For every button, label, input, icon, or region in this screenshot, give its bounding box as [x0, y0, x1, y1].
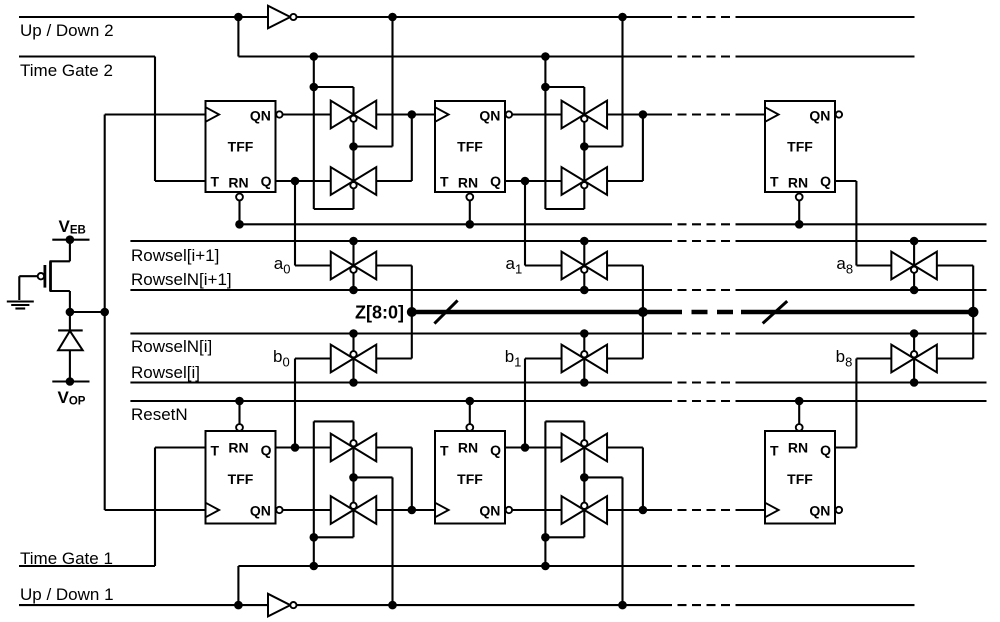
- svg-text:Rowsel[i]: Rowsel[i]: [131, 363, 200, 382]
- flip-flop U11 TFF (bottom bit 1): [435, 431, 505, 524]
- junction control mid: [349, 142, 358, 151]
- svg-text:RN: RN: [458, 440, 478, 456]
- junction: [388, 13, 397, 22]
- wire Rowsel control verticals b8: [913, 334, 915, 383]
- wire Rowsel control verticals a0: [352, 241, 354, 290]
- junction ResetN row: [795, 397, 804, 406]
- QN output bubble: [276, 111, 282, 117]
- junction Z bus end: [968, 307, 979, 318]
- wire Rowsel[i+1] row: [130, 240, 663, 242]
- junction: [618, 601, 627, 610]
- svg-text:T: T: [440, 443, 449, 459]
- junction RowselN[i]: [580, 329, 589, 338]
- QN output bubble: [506, 507, 512, 513]
- wire a1 output to Z: [607, 264, 643, 266]
- wire Q to down-gate: [525, 180, 562, 182]
- junction: [310, 562, 319, 571]
- svg-text:T: T: [770, 443, 779, 459]
- junction: [310, 52, 319, 61]
- junction RN row: [466, 220, 475, 229]
- QN output bubble: [506, 111, 512, 117]
- junction clock row bottom: [408, 506, 417, 515]
- flip-flop U1 TFF (top bit 0): [206, 101, 276, 192]
- junction clock row bottom: [639, 506, 648, 515]
- svg-text:Q: Q: [820, 173, 831, 189]
- junction Rowsel[i]: [910, 378, 919, 387]
- wire Rowsel control verticals b0: [352, 334, 354, 383]
- ground: [7, 300, 34, 302]
- inverter (Up/Down 2 top): [268, 6, 290, 29]
- wire Time Gate 1 vertical: [154, 448, 156, 567]
- junction RowselN[i+1]: [349, 286, 358, 295]
- junction Q top: [291, 177, 300, 186]
- wire control branch bottom: [545, 536, 584, 538]
- wire clock row dashed: [663, 113, 744, 115]
- svg-text:Q: Q: [490, 442, 501, 458]
- diode D1 SPAD: [58, 329, 83, 331]
- svg-text:Time Gate 1: Time Gate 1: [20, 549, 113, 568]
- svg-text:TFF: TFF: [787, 471, 813, 487]
- wire up-gate loop down bottom: [376, 446, 412, 448]
- svg-text:Z[8:0]: Z[8:0]: [355, 303, 404, 323]
- QN output bubble: [276, 507, 282, 513]
- svg-text:Q: Q: [261, 442, 272, 458]
- junction control: [541, 83, 550, 92]
- flip-flop U18 TFF (bottom bit 8): [765, 431, 835, 524]
- wire Rowsel control verticals b1: [583, 334, 585, 383]
- svg-text:QN: QN: [479, 503, 500, 519]
- transmission gate a8: [891, 252, 914, 280]
- wire RN stem: [798, 192, 800, 224]
- flip-flop U9 TFF (top bit 8): [765, 101, 835, 192]
- junction RN row: [795, 220, 804, 229]
- wire QN to down-gate bottom: [512, 509, 561, 511]
- wire Q to up-gate bottom: [295, 446, 331, 448]
- wire control true vertical: [313, 57, 315, 210]
- svg-text:QN: QN: [479, 108, 500, 124]
- svg-text:Up / Down 2: Up / Down 2: [20, 21, 114, 40]
- svg-text:Q: Q: [820, 442, 831, 458]
- transmission gate a0: [331, 252, 354, 280]
- junction control bottom: [310, 533, 319, 542]
- wire down-gate to next clock bottom: [376, 509, 412, 511]
- inverter (Up/Down 1 bottom): [268, 594, 290, 617]
- svg-text:ResetN: ResetN: [131, 405, 188, 424]
- transmission gate clock-path down (top): [562, 167, 585, 195]
- wire diode cathode: [69, 312, 71, 330]
- bus Z[8:0]: [412, 310, 666, 315]
- wire Q to up-gate bottom: [525, 446, 562, 448]
- transmission gate clock-path up (bottom): [562, 434, 585, 462]
- wire control true vertical bottom: [544, 421, 546, 566]
- RN input bubble: [236, 424, 243, 431]
- junction control mid bottom: [349, 473, 358, 482]
- wire Q to b-gate: [835, 446, 856, 448]
- wire control inverted vertical: [621, 17, 623, 147]
- wire down-gate loop up: [376, 180, 412, 182]
- junction: [541, 562, 550, 571]
- wire Time Gate 2 vertical: [154, 57, 156, 182]
- junction clock row: [639, 110, 648, 119]
- junction control bottom: [541, 533, 550, 542]
- svg-text:TFF: TFF: [787, 139, 813, 155]
- wire Q to b-gate: [276, 446, 296, 448]
- junction Rowsel[i]: [349, 378, 358, 387]
- junction Rowsel[i+1]: [580, 237, 589, 246]
- wire control branch: [314, 86, 354, 88]
- wire Q to a-gate: [276, 180, 296, 182]
- wire Rowsel control verticals a1: [583, 241, 585, 290]
- svg-text:RowselN[i+1]: RowselN[i+1]: [131, 270, 232, 289]
- junction RowselN[i]: [910, 329, 919, 338]
- junction: [234, 601, 243, 610]
- transmission gate a1: [562, 252, 585, 280]
- V_EB supply bar: [52, 239, 89, 241]
- wire clock into bottom TFF1: [105, 509, 206, 511]
- junction RN row: [235, 220, 244, 229]
- bus width slash: [434, 300, 457, 323]
- svg-text:T: T: [770, 174, 779, 190]
- svg-text:Q: Q: [490, 173, 501, 189]
- svg-text:TFF: TFF: [457, 471, 483, 487]
- wire Up/Down 1 branch dashed: [663, 565, 744, 567]
- svg-text:T: T: [211, 174, 220, 190]
- transmission gate b0: [331, 345, 354, 373]
- svg-text:QN: QN: [809, 503, 830, 519]
- wire RowselN[i] row: [130, 332, 663, 334]
- junction: [234, 13, 243, 22]
- wire RN stem bottom: [798, 401, 800, 431]
- wire RowselN[i+1] row: [130, 289, 663, 291]
- wire control inverted vertical bottom: [391, 477, 393, 605]
- junction: [541, 52, 550, 61]
- svg-text:TFF: TFF: [457, 139, 483, 155]
- svg-text:QN: QN: [809, 108, 830, 124]
- transmission gate clock-path down (top): [331, 167, 354, 195]
- wire b1 output to Z: [607, 357, 643, 359]
- wire control true vertical: [544, 57, 546, 210]
- wire up-gate loop down bottom: [607, 446, 643, 448]
- V_OP supply bar: [52, 380, 89, 382]
- junction V_OP: [66, 377, 75, 386]
- junction clock row: [408, 110, 417, 119]
- wire down-gate loop up: [607, 180, 643, 182]
- wire QN to up-gate: [512, 113, 561, 115]
- flip-flop U2 TFF (top bit 1): [435, 101, 505, 192]
- wire Time Gate 1 row: [19, 565, 155, 567]
- svg-text:T: T: [440, 174, 449, 190]
- wire Q to b-gate: [505, 446, 525, 448]
- wire control true vertical bottom: [313, 421, 315, 566]
- wire control branch: [545, 86, 584, 88]
- junction Rowsel[i+1]: [349, 237, 358, 246]
- junction ResetN row: [466, 397, 475, 406]
- svg-text:Q: Q: [261, 173, 272, 189]
- wire Q to a-gate: [835, 180, 856, 182]
- transmission gate clock-path up (top): [331, 101, 354, 129]
- junction control mid: [580, 142, 589, 151]
- svg-text:Rowsel[i+1]: Rowsel[i+1]: [131, 246, 219, 265]
- wire down-gate to next clock bottom: [607, 509, 643, 511]
- junction Rowsel[i+1]: [910, 237, 919, 246]
- wire Up/Down 1 row: [19, 604, 268, 606]
- wire Q to a-gate: [505, 180, 525, 182]
- wire Up/Down 2 row: [19, 16, 268, 18]
- wire up-gate to next clock: [607, 113, 643, 115]
- wire a8 output to Z: [937, 264, 973, 266]
- wire Q to down-gate: [295, 180, 331, 182]
- junction V_EB: [66, 235, 75, 244]
- wire Time Gate 2 row: [19, 55, 155, 57]
- wire up-gate to next clock: [376, 113, 412, 115]
- wire SPAD clock feed vertical: [104, 115, 106, 511]
- wire Up/Down 2 row dashed continuation: [663, 16, 744, 18]
- wire diode anode: [69, 350, 71, 381]
- node SPAD sense: [66, 308, 75, 317]
- svg-text:RowselN[i]: RowselN[i]: [131, 337, 212, 356]
- wire Up/Down 2 branch: [237, 17, 239, 57]
- wire Rowsel control verticals a8: [913, 241, 915, 290]
- transmission gate b8: [891, 345, 914, 373]
- junction: [618, 13, 627, 22]
- junction control: [310, 83, 319, 92]
- RN input bubble: [796, 194, 803, 201]
- svg-text:RN: RN: [788, 175, 808, 191]
- transmission gate clock-path up (top): [562, 101, 585, 129]
- wire Up/Down 2 branch dashed: [663, 55, 744, 57]
- wire ResetN row: [130, 400, 663, 402]
- wire Up/Down 1 row dashed: [663, 604, 744, 606]
- svg-text:TFF: TFF: [228, 471, 254, 487]
- wire control inverted vertical: [391, 17, 393, 147]
- svg-text:RN: RN: [788, 440, 808, 456]
- transistor M1 PMOS gate plate: [44, 265, 47, 288]
- QN output bubble: [836, 111, 842, 117]
- svg-text:RN: RN: [228, 175, 248, 191]
- junction: [388, 601, 397, 610]
- wire RN stem: [469, 192, 471, 224]
- svg-text:T: T: [211, 443, 220, 459]
- wire clock row dashed bottom: [663, 509, 744, 511]
- junction ResetN row: [235, 397, 244, 406]
- wire PMOS source: [69, 240, 71, 262]
- transmission gate clock-path down (bottom): [331, 496, 354, 524]
- RN input bubble: [796, 424, 803, 431]
- junction Q bottom: [521, 443, 530, 452]
- svg-text:Time Gate 2: Time Gate 2: [20, 61, 113, 80]
- wire Up/Down 1 branch: [237, 566, 239, 605]
- transmission gate clock-path up (bottom): [331, 434, 354, 462]
- junction RowselN[i]: [349, 329, 358, 338]
- wire control branch bottom: [314, 536, 354, 538]
- wire RN stem bottom: [469, 401, 471, 431]
- wire clock into top TFF1: [105, 113, 206, 115]
- wire PMOS gate: [19, 275, 37, 277]
- flip-flop U10 TFF (bottom bit 0): [206, 431, 276, 524]
- junction Q top: [521, 177, 530, 186]
- svg-text:TFF: TFF: [228, 139, 254, 155]
- junction Z bus: [638, 307, 648, 317]
- svg-text:Up / Down 1: Up / Down 1: [20, 585, 114, 604]
- wire Rowsel[i] row: [130, 381, 663, 383]
- junction Q bottom: [291, 443, 300, 452]
- RN input bubble: [466, 194, 473, 201]
- RN input bubble: [466, 424, 473, 431]
- wire PMOS drain: [50, 290, 70, 292]
- wire QN to down-gate bottom: [283, 509, 331, 511]
- wire RN stem bottom: [238, 401, 240, 431]
- junction RowselN[i+1]: [580, 286, 589, 295]
- wire QN to up-gate: [283, 113, 331, 115]
- wire b0 output to Z: [376, 357, 412, 359]
- svg-text:QN: QN: [250, 108, 271, 124]
- wire a0 output to Z: [376, 264, 412, 266]
- wire RN stem: [238, 192, 240, 224]
- wire RN row top: [240, 223, 664, 225]
- svg-text:RN: RN: [228, 440, 248, 456]
- QN output bubble: [836, 507, 842, 513]
- wire control inverted vertical bottom: [621, 477, 623, 605]
- svg-text:QN: QN: [250, 503, 271, 519]
- wire b8 output to Z: [937, 357, 973, 359]
- junction Rowsel[i]: [580, 378, 589, 387]
- junction control mid bottom: [580, 473, 589, 482]
- svg-text:RN: RN: [458, 175, 478, 191]
- RN input bubble: [236, 194, 243, 201]
- transmission gate b1: [562, 345, 585, 373]
- transistor M1 PMOS channel: [49, 261, 52, 291]
- junction RowselN[i+1]: [910, 286, 919, 295]
- transmission gate clock-path down (bottom): [562, 496, 585, 524]
- bus width slash: [763, 301, 788, 323]
- junction Z bus: [407, 307, 417, 317]
- transistor M1 PMOS gate bubble: [38, 273, 44, 279]
